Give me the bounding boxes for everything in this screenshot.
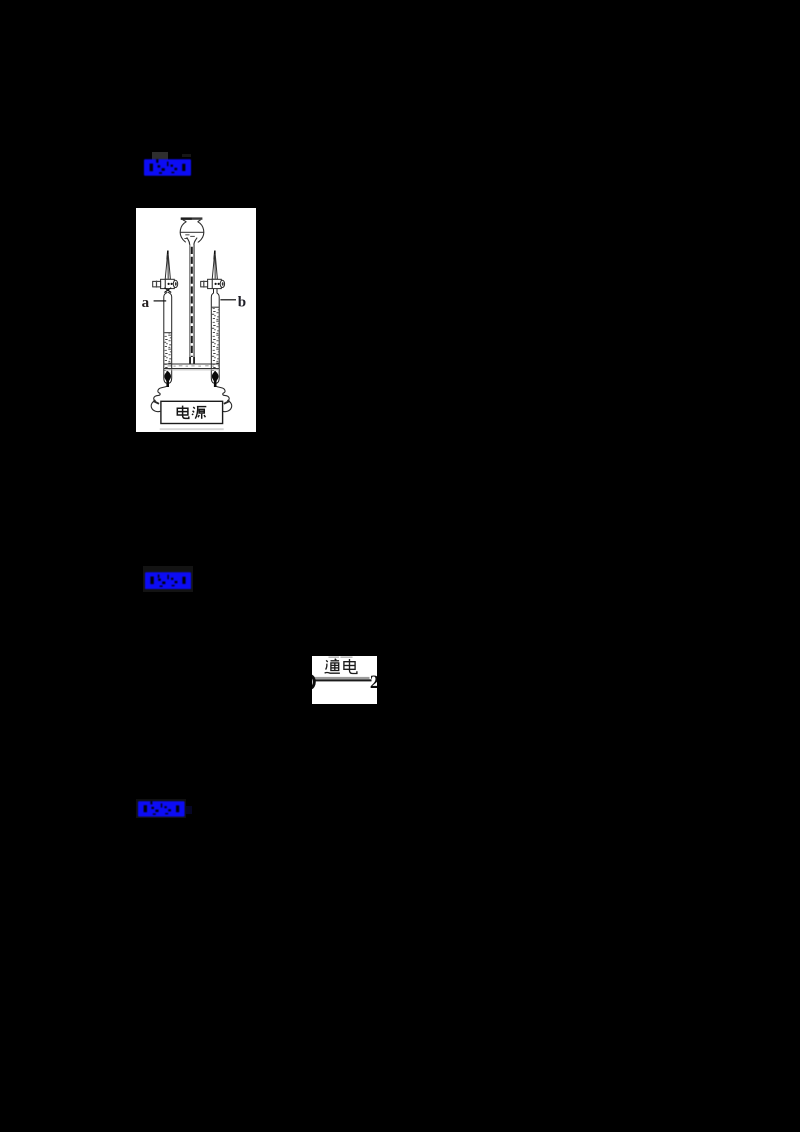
electrode b [212,371,219,387]
svg-text:b: b [238,295,246,311]
power supply box [161,401,223,423]
glyph yuan (source) [192,407,206,419]
left jet spike [165,251,170,280]
electrode a [164,371,171,387]
blue section label 1 [144,159,191,176]
label a [142,295,167,311]
left valve bowtie [164,288,171,293]
faint blue smudge right of label 3 [186,806,192,814]
blue section label 2 [145,572,191,589]
faint halo behind label 3 [136,799,186,818]
faint glyph from line above label 1 [152,152,168,161]
tube a liquid [164,332,171,372]
tube b body [211,289,219,384]
reservoir bulb rim [181,217,203,219]
faint scan marks at top edge [328,656,352,657]
connecting tube [164,364,219,371]
bulb liquid level [181,232,204,239]
glyph dian (electric) [177,406,189,419]
faint glyph smudge right [182,154,191,157]
glyph dian (electric) [343,659,356,674]
equation fragment panel (tongdian arrow) [312,656,377,705]
faint halo behind label 2 [143,566,193,592]
centre graduated tube [189,245,195,365]
svg-text:a: a [142,295,150,311]
reservoir bulb body [180,220,204,244]
clipped O of 2H2O at left edge [306,675,314,687]
svg-text:2: 2 [369,672,376,692]
blue section label 3 [138,801,185,817]
grey shadow line under box [160,428,224,430]
apparatus figure panel [136,208,256,432]
reaction arrow [313,676,371,681]
wire from electrode b [216,386,232,411]
bulb outlet taper [186,237,198,244]
right stopcock [201,279,225,288]
glyph tong (pass) [324,658,339,672]
right jet spike [212,251,217,280]
tube a body [164,292,172,383]
left stopcock [153,279,178,288]
label b [220,295,246,311]
wire from electrode a [151,386,167,411]
tube b liquid [212,307,219,373]
